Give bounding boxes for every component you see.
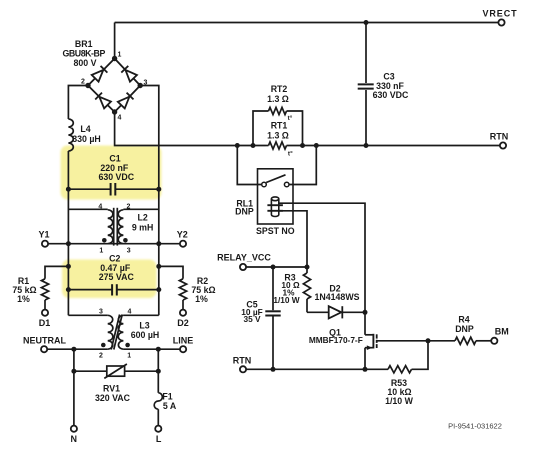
svg-text:L: L (156, 434, 162, 444)
relay RL1 switch contacts (262, 182, 289, 187)
wire BR1 pin3 to right rail (140, 86, 159, 190)
node NEUTRAL RV1 tap (71, 347, 76, 352)
wire VRECT rail to C3 (365, 23, 367, 84)
node RV1 right (156, 369, 161, 374)
svg-text:NEUTRAL: NEUTRAL (23, 335, 66, 345)
resistor R53 (385, 366, 414, 406)
wire RV1 left lead (74, 370, 107, 372)
wire relay bypass left (237, 146, 261, 185)
svg-text:RTN: RTN (233, 356, 252, 366)
wire bridge pin1 to top rail (115, 23, 502, 59)
wire right rail C1 to L3 (123, 189, 158, 315)
wire relay bypass right (289, 146, 316, 185)
terminal RTN top (490, 131, 509, 148)
svg-text:MMBF170-7-F: MMBF170-7-F (309, 335, 363, 345)
node C5 bottom (271, 367, 276, 372)
node C1 right (156, 187, 161, 192)
wire RTN bottom rail (246, 368, 388, 370)
terminal NEUTRAL (23, 335, 66, 352)
label L3 (131, 321, 160, 340)
svg-text:RT1: RT1 (271, 120, 288, 130)
svg-text:1: 1 (118, 52, 122, 59)
node C3 RTN junction (364, 143, 369, 148)
wire RELAY_VCC to C5 (272, 267, 274, 310)
node C5 top (271, 265, 276, 270)
svg-text:RT2: RT2 (271, 84, 288, 94)
svg-text:1%: 1% (17, 294, 30, 304)
svg-text:630 VDC: 630 VDC (98, 172, 134, 182)
node C1 left (66, 187, 71, 192)
node C2 left (66, 287, 71, 292)
svg-text:2: 2 (99, 353, 103, 360)
node D2 Q1 junction (363, 310, 368, 315)
svg-text:LINE: LINE (173, 335, 194, 345)
wire NEUTRAL to L2 pin2 (47, 348, 107, 350)
wire RT2 right stub (287, 111, 303, 146)
svg-text:SPST NO: SPST NO (256, 226, 295, 236)
svg-text:D1: D1 (39, 318, 51, 328)
diode BR1 upper-right (121, 66, 137, 82)
svg-text:VRECT: VRECT (482, 9, 517, 19)
relay RL1 coil (267, 197, 283, 217)
resistor R2 (179, 276, 215, 304)
svg-text:800 V: 800 V (74, 58, 97, 68)
wire R53 to gate node (412, 341, 429, 370)
wire C3 to RTN rail (365, 90, 367, 146)
terminal N (70, 426, 77, 444)
transformer L3 polarity dots (101, 343, 130, 348)
svg-text:4: 4 (98, 203, 102, 210)
wire BR1 pin4 to RTN rail (115, 112, 266, 146)
node gate R53 junction (426, 338, 431, 343)
svg-text:t°: t° (288, 149, 293, 157)
svg-text:DNP: DNP (455, 324, 474, 334)
wire R2 to D2 (182, 300, 184, 310)
node R3 top (305, 265, 310, 270)
svg-text:600 µH: 600 µH (131, 330, 160, 340)
svg-text:1N4148WS: 1N4148WS (315, 292, 360, 302)
relay RL1 box (258, 169, 294, 224)
wire C5 to RTN (272, 317, 274, 370)
node RT2 right (300, 143, 305, 148)
label PI-9541-031622 (448, 421, 502, 430)
svg-text:630 VDC: 630 VDC (373, 90, 409, 100)
terminal L (155, 426, 162, 444)
terminal LINE (173, 335, 194, 352)
node RT2 left (251, 143, 256, 148)
svg-text:1.3 Ω: 1.3 Ω (267, 131, 289, 141)
transformer L2 right winding pin2 pin3 (118, 203, 131, 254)
wire coil to RELAY_VCC column (279, 211, 307, 267)
wire RV1 right lead (125, 370, 159, 372)
node C2 right (156, 287, 161, 292)
node BR1 pin 4 (112, 109, 122, 121)
svg-text:4: 4 (118, 115, 122, 122)
resistor R1 (12, 276, 48, 304)
wire left rail jog to L2 pin4 (68, 208, 107, 210)
wire right rail jog to L2 pin2 (123, 208, 158, 210)
svg-text:DNP: DNP (235, 207, 254, 217)
terminal D1 (39, 310, 51, 328)
svg-text:1: 1 (99, 248, 103, 255)
svg-text:PI-9541-031622: PI-9541-031622 (448, 421, 502, 430)
wire RTN rail right segment (287, 145, 504, 147)
svg-text:RELAY_VCC: RELAY_VCC (217, 252, 271, 262)
label RL1 DNP (235, 198, 254, 216)
svg-text:2: 2 (81, 79, 85, 86)
wire L4 to C1 node (67, 151, 69, 189)
terminal BM (491, 327, 509, 344)
relay RL1 switch blade (266, 175, 285, 183)
wire BR1 pin2 to L4 (68, 86, 88, 120)
capacitor C5 (241, 300, 280, 325)
svg-text:35 V: 35 V (243, 314, 261, 324)
highlight box around C1 (61, 146, 162, 200)
transformer L3 right winding pin4 pin1 (118, 308, 131, 359)
label SPST NO (256, 226, 295, 236)
highlight box around C2 (62, 260, 157, 299)
svg-text:BM: BM (495, 327, 509, 337)
terminal Y1 (38, 229, 49, 246)
svg-text:1/10 W: 1/10 W (385, 396, 414, 406)
wire R1 to D1 (44, 300, 46, 310)
svg-text:330 µH: 330 µH (72, 134, 101, 144)
wire R2 tap (159, 266, 183, 278)
node BR1 pin 1 (112, 52, 122, 62)
wire RTN rail left segment (266, 145, 269, 147)
node VRECT junction to C3 (364, 20, 369, 25)
capacitor C2 (68, 254, 158, 296)
thermistor RT2 (267, 84, 293, 122)
wire LINE to L3 pin1 (123, 348, 180, 350)
wire Y1 to Y2 (48, 243, 180, 245)
svg-text:D2: D2 (177, 318, 189, 328)
wire LINE down to F1 (157, 349, 159, 393)
wire left rail C1 to L3 (68, 189, 107, 315)
svg-text:L2: L2 (137, 213, 147, 223)
transformer L3 left winding pin3 pin2 (99, 308, 113, 359)
terminal D2 (177, 310, 189, 328)
svg-text:1%: 1% (195, 294, 208, 304)
svg-text:RTN: RTN (490, 131, 509, 141)
node relay bypass left (235, 143, 240, 148)
transistor Q1 (309, 312, 377, 369)
resistor R4 (455, 315, 476, 345)
wire gate to R4 (428, 340, 455, 342)
wire R3 to D2 anode (307, 299, 329, 312)
resistor R3 (273, 267, 310, 305)
transformer L2 core (114, 208, 118, 246)
varistor RV1 (95, 364, 131, 403)
svg-text:t°: t° (288, 114, 293, 122)
bridge rectifier BR1 outline (63, 39, 141, 112)
wire coil to Q1 drain column (279, 203, 365, 312)
node BR1 pin 3 (138, 80, 148, 89)
svg-text:BR1: BR1 (75, 39, 93, 49)
diode BR1 lower-right (118, 93, 134, 109)
svg-text:Y1: Y1 (38, 229, 49, 239)
label L2 (132, 213, 154, 233)
node RV1 left (71, 369, 76, 374)
diode BR1 lower-left (95, 93, 111, 109)
node relay bypass right (314, 143, 319, 148)
terminal RTN bottom (233, 356, 252, 373)
node Y1 rail junction (66, 241, 71, 246)
wire R4 to BM (476, 340, 491, 342)
wire NEUTRAL down to RV1 (73, 349, 75, 371)
transformer L2 polarity dots (102, 238, 128, 243)
inductor L4 (68, 119, 100, 151)
node Q1 source RTN (363, 367, 368, 372)
svg-text:275 VAC: 275 VAC (99, 272, 135, 282)
wire D2 cathode to Q1 column (342, 311, 365, 313)
svg-text:L4: L4 (80, 124, 90, 134)
svg-text:1/10 W: 1/10 W (273, 295, 299, 305)
wire RV1 to N (73, 371, 75, 426)
transformer L2 left winding pin4 pin1 (98, 203, 113, 254)
terminal VRECT (482, 9, 517, 26)
wire R1 tap (45, 266, 68, 278)
svg-text:1.3 Ω: 1.3 Ω (267, 94, 289, 104)
thermistor RT1 (267, 120, 293, 157)
wire RT2 left stub (253, 111, 269, 146)
node BR1 pin 2 (81, 79, 91, 89)
terminal RELAY_VCC (217, 252, 271, 270)
transformer L3 core slashes (111, 315, 122, 350)
svg-text:Y2: Y2 (177, 229, 188, 239)
wire RELAY_VCC (246, 266, 307, 268)
svg-text:4: 4 (128, 308, 132, 315)
node R1 tap (66, 264, 71, 269)
capacitor C3 (358, 72, 409, 101)
node Y2 rail junction (156, 241, 161, 246)
svg-text:9 mH: 9 mH (132, 222, 154, 232)
diode D2 (315, 284, 360, 319)
fuse F1 (154, 392, 177, 411)
diode BR1 upper-left (92, 66, 108, 82)
wire Q1 gate (377, 340, 428, 342)
node R2 tap (156, 264, 161, 269)
svg-text:2: 2 (127, 203, 131, 210)
svg-text:1: 1 (127, 353, 131, 360)
wire F1 to L (157, 409, 159, 426)
svg-text:N: N (70, 434, 77, 444)
capacitor C1 (68, 154, 158, 196)
svg-text:320 VAC: 320 VAC (95, 393, 131, 403)
svg-text:5 A: 5 A (163, 401, 177, 411)
svg-text:3: 3 (127, 248, 131, 255)
node LINE F1 tap (156, 347, 161, 352)
terminal Y2 (177, 229, 188, 246)
svg-text:GBU8K-BP: GBU8K-BP (63, 49, 106, 59)
svg-text:3: 3 (99, 308, 103, 315)
